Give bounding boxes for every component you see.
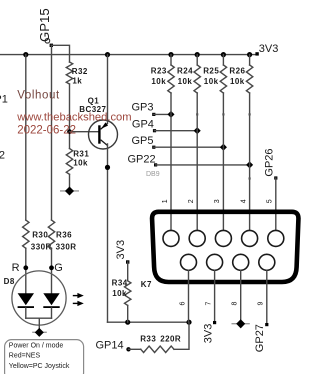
- wire 3V3 top rail: [0, 54, 257, 56]
- wire GP15 down (V2): [51, 45, 53, 220]
- pin 5 circle: [268, 230, 284, 246]
- svg-text:R23: R23: [151, 67, 167, 76]
- wire LED center tap: [38, 318, 40, 332]
- svg-text:R: R: [12, 262, 20, 274]
- node GP5 pad: [152, 146, 155, 149]
- svg-text:Red=NES: Red=NES: [9, 353, 41, 360]
- svg-text:GP2: GP2: [0, 149, 5, 161]
- svg-text:GP22: GP22: [128, 153, 156, 165]
- svg-text:R33: R33: [140, 335, 156, 344]
- svg-text:www.thebackshed.com: www.thebackshed.com: [16, 112, 131, 124]
- wire R23 to DB9: [170, 93, 172, 230]
- wire emitter up to rail: [107, 55, 109, 123]
- wire R30 to LED: [25, 248, 27, 293]
- svg-text:R25: R25: [203, 67, 219, 76]
- svg-text:K7: K7: [141, 280, 152, 289]
- node GP3 pad: [152, 113, 155, 116]
- svg-text:R24: R24: [177, 67, 193, 76]
- svg-text:10k: 10k: [112, 289, 127, 298]
- svg-text:3V3: 3V3: [259, 43, 279, 55]
- wire R36 to LED: [51, 248, 53, 293]
- wire R26 to DB9: [249, 93, 251, 230]
- resistor R26: [246, 65, 252, 93]
- note box: [5, 340, 84, 374]
- pin 4 circle: [242, 230, 258, 246]
- resistor R23: [168, 65, 174, 93]
- connector K7 DB9 outline: [152, 212, 298, 282]
- svg-text:GP27: GP27: [254, 324, 266, 352]
- wire R34 to rail: [127, 305, 129, 322]
- node rail junction B: [105, 52, 110, 57]
- wire collector down: [107, 144, 109, 322]
- wire R24 to DB9: [196, 93, 198, 230]
- node GP14 pad: [126, 347, 130, 351]
- node GP5 junction: [220, 144, 227, 151]
- svg-text:3V3: 3V3: [115, 240, 127, 260]
- ground stub LED: [32, 328, 47, 337]
- svg-text:GP15: GP15: [37, 8, 52, 42]
- svg-text:8: 8: [232, 302, 239, 306]
- node segment tick: [249, 113, 251, 115]
- wire V1 from rail to R30: [25, 55, 27, 220]
- wire GP5: [154, 146, 224, 148]
- resistor R36: [48, 220, 54, 248]
- svg-text:GP1: GP1: [0, 93, 8, 105]
- node segment tick: [196, 113, 198, 115]
- svg-text:330R: 330R: [56, 242, 77, 251]
- ground stub pin8: [232, 319, 250, 328]
- node rail junction A: [23, 52, 28, 57]
- svg-text:R34: R34: [112, 278, 128, 287]
- svg-text:3: 3: [214, 199, 221, 203]
- svg-text:Yellow=PC Joystick: Yellow=PC Joystick: [9, 363, 70, 370]
- wire GP15 to R32: [51, 45, 69, 62]
- node rail junction D: [195, 52, 200, 57]
- svg-text:GP14: GP14: [96, 339, 124, 351]
- wire pin8 down: [240, 270, 242, 324]
- svg-text:10k: 10k: [151, 77, 166, 86]
- pin 3 circle: [215, 230, 231, 246]
- node R34 bottom junction: [125, 320, 130, 325]
- wire rail to R24: [196, 55, 198, 65]
- wire R25 to DB9: [222, 93, 224, 230]
- svg-text:10k: 10k: [178, 77, 193, 86]
- wire GP22: [156, 164, 250, 166]
- wire 3V3 pad to R34: [127, 262, 129, 281]
- svg-text:Power On / mode: Power On / mode: [9, 342, 64, 349]
- LED D8 circle: [12, 271, 66, 325]
- node rail junction C: [168, 52, 173, 57]
- pin 1 circle: [163, 230, 179, 246]
- node pin6 rail junction: [186, 320, 191, 325]
- wire GP3: [154, 113, 171, 115]
- wire rail to R26: [249, 55, 251, 65]
- wire R33 to pin6: [174, 322, 189, 349]
- node GP4 junction: [194, 127, 201, 134]
- wire pin9 down: [266, 270, 268, 324]
- svg-text:5: 5: [267, 199, 274, 203]
- wire rail to R25: [222, 55, 224, 65]
- wire R32 to base node: [69, 84, 71, 149]
- pin 8 circle: [233, 254, 249, 270]
- node LED R junction: [23, 265, 28, 270]
- svg-text:1: 1: [162, 199, 169, 203]
- svg-text:220R: 220R: [160, 335, 181, 344]
- LED green diode: [43, 293, 59, 318]
- resistor R33: [141, 346, 174, 352]
- resistor R24: [194, 65, 200, 93]
- wire GP14 to R33: [129, 348, 141, 350]
- node pin7 3V3 pad: [213, 321, 216, 324]
- wire pin7 down: [214, 270, 216, 322]
- svg-text:R30: R30: [32, 231, 48, 240]
- svg-text:2: 2: [188, 199, 195, 203]
- node segment tick: [249, 177, 251, 179]
- svg-text:2022-06-22: 2022-06-22: [17, 125, 76, 137]
- wire GP4: [155, 130, 198, 132]
- svg-text:G: G: [54, 262, 63, 274]
- node LED G junction: [49, 265, 54, 270]
- resistor R31: [66, 149, 72, 175]
- node 3V3 pad top right: [255, 52, 258, 55]
- node GP22 junction: [246, 161, 253, 168]
- svg-text:R36: R36: [56, 231, 72, 240]
- svg-text:GP26: GP26: [263, 148, 275, 176]
- LED red diode: [18, 293, 34, 318]
- node GP15 terminal: [45, 39, 53, 48]
- svg-text:10k: 10k: [230, 77, 245, 86]
- svg-text:3V3: 3V3: [203, 324, 215, 344]
- node base junction: [67, 129, 72, 134]
- ground stub R31: [60, 186, 79, 195]
- node pin9 pad: [265, 323, 268, 326]
- node segment tick: [222, 113, 224, 115]
- node GP22 pad: [154, 163, 157, 166]
- pin 6 circle: [181, 254, 197, 270]
- node GP3 junction: [167, 111, 174, 118]
- wire LED cathode join: [26, 317, 52, 319]
- transistor Q1 BC327: [89, 120, 118, 149]
- svg-text:9: 9: [258, 302, 265, 306]
- wire R31 bottom: [69, 174, 71, 191]
- svg-text:R26: R26: [229, 67, 245, 76]
- LED emission arrows: [73, 293, 84, 306]
- resistor R30: [23, 220, 29, 248]
- resistor R25: [220, 65, 226, 93]
- node GP26 pad: [274, 176, 277, 179]
- svg-text:6: 6: [179, 302, 186, 306]
- svg-text:1k: 1k: [72, 77, 82, 86]
- svg-text:GP5: GP5: [132, 135, 154, 147]
- svg-text:Volhout: Volhout: [17, 90, 60, 102]
- svg-text:10k: 10k: [204, 77, 219, 86]
- resistor R32: [66, 62, 72, 84]
- node rail junction E: [221, 52, 226, 57]
- pin 9 circle: [259, 254, 275, 270]
- svg-text:R32: R32: [72, 67, 88, 76]
- svg-text:7: 7: [205, 302, 212, 306]
- wire pin6 down: [188, 270, 190, 322]
- wire rail to R23: [170, 55, 172, 65]
- svg-text:4: 4: [240, 199, 247, 203]
- svg-text:GP4: GP4: [132, 119, 154, 131]
- resistor R34: [125, 281, 131, 306]
- pin 2 circle: [189, 230, 205, 246]
- wire bottom rail: [108, 321, 190, 323]
- node emitter junction: [105, 165, 110, 170]
- svg-text:D8: D8: [4, 277, 15, 286]
- svg-text:GP3: GP3: [132, 102, 154, 114]
- pin 7 circle: [207, 254, 223, 270]
- svg-text:10k: 10k: [73, 159, 88, 168]
- wire GP26 to pin5: [275, 178, 277, 230]
- svg-text:R31: R31: [73, 149, 89, 158]
- node rail junction F: [247, 52, 252, 57]
- node 3V3 pad R34: [126, 260, 129, 263]
- node GP4 pad: [153, 129, 156, 132]
- svg-text:DB9: DB9: [146, 171, 160, 178]
- wire base: [70, 131, 100, 133]
